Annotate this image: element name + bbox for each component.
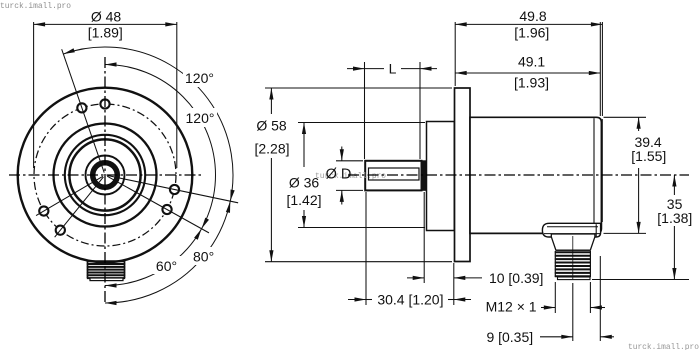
svg-text:turck.imall.pro: turck.imall.pro	[0, 2, 71, 11]
svg-text:[2.28]: [2.28]	[254, 141, 289, 157]
connector thread line 1, front view	[87, 260, 125, 262]
boot right seam	[595, 224, 597, 236]
mounting hole 2	[39, 206, 48, 215]
radial line through hole at -141 deg	[55, 177, 104, 237]
label 80deg	[190, 247, 218, 265]
svg-text:49.1: 49.1	[518, 54, 545, 70]
svg-text:120°: 120°	[186, 110, 215, 126]
dim M12x1: right extension	[589, 282, 591, 313]
mounting hole 4	[100, 99, 109, 108]
dim D58: top extension	[265, 87, 452, 89]
horizontal centerline, side view	[348, 174, 689, 176]
thread line 3, side view	[555, 258, 591, 260]
dim L: right extension	[419, 62, 421, 159]
M12 thread left side	[554, 251, 556, 277]
dim D58: dimension line	[270, 88, 272, 114]
dim 49.1: right extension	[599, 22, 601, 116]
shaft inner sleeve	[369, 168, 420, 180]
dim D48: dimension line	[34, 23, 177, 25]
dim 35: dimension line	[673, 175, 675, 195]
mounting hole 6	[162, 205, 171, 214]
dim L: left extension	[364, 62, 366, 159]
thread line 5, side view	[555, 265, 591, 267]
flange D58	[455, 88, 471, 262]
connector centerline	[572, 236, 574, 279]
hollow shaft thick ring	[93, 163, 118, 188]
dim D58: bottom extension	[265, 261, 452, 263]
dim 30.4: right extension (flange face)	[453, 263, 455, 305]
svg-text:Ø D: Ø D	[326, 167, 352, 183]
mounting hole 1	[56, 226, 65, 235]
thread line 8, side view	[555, 275, 591, 277]
dim D48: left extension line	[33, 22, 35, 168]
connector thread line 7, front view	[87, 277, 125, 279]
dim 35: bottom extension	[592, 279, 689, 281]
thread line 4, side view	[555, 262, 591, 264]
svg-text:80°: 80°	[193, 249, 214, 265]
dim L: line + outside arrows	[347, 68, 365, 70]
shaft outline	[365, 161, 421, 191]
dim 30.4: line + outside arrows	[348, 299, 366, 301]
svg-text:L: L	[389, 61, 397, 77]
svg-text:49.8: 49.8	[519, 8, 546, 24]
connector thread line 3, front view	[87, 266, 125, 268]
label 120deg (upper)	[183, 68, 216, 87]
dim M12x1: line + arrows	[541, 307, 555, 309]
label 120deg (lower)	[184, 108, 217, 127]
mounting hole 5	[170, 185, 179, 194]
angle dimension arc r110.5 (120deg / 60deg)	[105, 65, 216, 286]
M12 connector, front view: right side	[124, 261, 126, 279]
dim 49.8: dimension line	[455, 23, 602, 25]
radial line through hole at -19 deg	[62, 49, 104, 172]
dim M12x1: left extension	[554, 282, 556, 313]
dim DD: arrows outside	[341, 147, 343, 161]
dim 30.4: left extension	[365, 192, 367, 305]
label 60deg	[153, 256, 181, 274]
svg-text:30.4 [1.20]: 30.4 [1.20]	[377, 292, 443, 308]
encoder body	[470, 117, 601, 233]
svg-text:[1.55]: [1.55]	[631, 148, 666, 164]
boot inner line	[547, 226, 598, 228]
boss circle D36	[54, 124, 157, 227]
dim D36: bottom extension	[298, 227, 425, 229]
svg-text:[1.96]: [1.96]	[514, 24, 549, 40]
dim 39.4: bottom extension	[604, 232, 647, 234]
shaft shoulder (filled)	[422, 160, 427, 191]
dim 10: left extension	[423, 192, 425, 283]
clamping ring outer circle	[65, 135, 145, 215]
radial line through hole at 119.1 deg	[107, 176, 209, 233]
rear cap seam line	[593, 118, 595, 232]
M12 connector, front view: left side	[87, 261, 89, 279]
vertical centerline, front view	[104, 57, 106, 303]
dim 49.8/49.1: left extension	[454, 22, 456, 86]
svg-text:9 [0.35]: 9 [0.35]	[486, 329, 533, 345]
dim D48: right extension line	[176, 22, 178, 168]
dim 39.4: dimension line	[638, 117, 640, 131]
dim D36: top extension	[298, 122, 425, 124]
connector neck bottom line	[556, 249, 590, 251]
connector neck trapezoid	[551, 234, 595, 250]
M12 thread right side	[589, 251, 591, 277]
svg-text:[1.89]: [1.89]	[88, 25, 123, 41]
dim 9: line + arrows	[540, 336, 573, 338]
dim 49.1: dimension line	[455, 72, 600, 74]
dim 9: right extension (rear face)	[599, 256, 601, 341]
dim DD: top extension	[336, 160, 363, 162]
svg-text:Ø 48: Ø 48	[91, 9, 122, 25]
connector end cap, front view	[90, 278, 123, 281]
dim 10: line + arrows	[407, 277, 424, 279]
connector thread line 4, front view	[87, 269, 125, 271]
svg-text:10 [0.39]: 10 [0.39]	[489, 270, 544, 286]
connector thread line 2, front view	[87, 263, 125, 265]
radial line through hole at 101.8 deg	[107, 176, 238, 203]
connector end cap, side view	[558, 277, 591, 280]
svg-text:Ø 58: Ø 58	[256, 118, 287, 134]
svg-text:[1.42]: [1.42]	[286, 192, 321, 208]
horizontal centerline, front view	[9, 174, 204, 176]
encoder outer body circle D58	[18, 88, 193, 263]
svg-text:60°: 60°	[156, 258, 177, 274]
dim 49.8: right extension	[601, 22, 603, 116]
dim 39.4: top extension	[604, 116, 647, 118]
shaft bore circle	[86, 156, 125, 195]
dim 9: center extension	[572, 283, 574, 341]
thread line 6, side view	[555, 268, 591, 270]
connector thread line 5, front view	[87, 271, 125, 273]
boot lower line / body bottom continuation	[544, 233, 600, 235]
connector boot cap	[542, 223, 600, 237]
svg-text:turck.imall.pro: turck.imall.pro	[628, 343, 699, 350]
svg-text:Ø 36: Ø 36	[289, 175, 320, 191]
thread line 1, side view	[555, 251, 591, 253]
svg-text:M12 × 1: M12 × 1	[486, 299, 537, 315]
thread line 7, side view	[555, 272, 591, 274]
arrowheads at 119.1deg crossing	[202, 218, 209, 229]
rear edge second line	[601, 119, 603, 222]
connector thread line 6, front view	[87, 274, 125, 276]
angle dimension arc r128 (120deg / 80deg)	[63, 47, 233, 303]
dim D36: dimension line	[303, 123, 305, 168]
thread line 2, side view	[555, 255, 591, 257]
bolt circle D48 (dash-dot)	[34, 104, 176, 246]
svg-text:[1.93]: [1.93]	[514, 75, 549, 91]
mounting hole 3	[77, 103, 86, 112]
dim DD: bottom extension	[336, 189, 363, 191]
collet circle outer	[69, 139, 140, 210]
radial line through hole at -120.5 deg	[36, 176, 103, 215]
svg-text:120°: 120°	[185, 70, 214, 86]
svg-text:[1.38]: [1.38]	[657, 210, 692, 226]
boss D36	[427, 122, 455, 231]
arrowheads at 101.8deg crossing	[230, 189, 234, 201]
